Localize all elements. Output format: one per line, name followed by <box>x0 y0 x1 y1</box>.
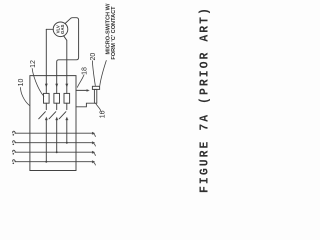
branch 3 connector arrow (down) <box>66 84 68 87</box>
branch 3 wire below box <box>66 103 68 109</box>
bus 2 left break squiggle <box>13 141 16 143</box>
micro-switch NC contact wire 18 <box>76 89 86 91</box>
gas valve label text <box>56 24 65 34</box>
switch blade S1 <box>39 112 46 119</box>
micro-switch body <box>94 89 96 103</box>
heater element box R2 <box>54 93 60 103</box>
bus 4 line <box>15 161 92 163</box>
leader line for label 16 <box>96 104 101 112</box>
bus 3 line <box>15 151 92 153</box>
branch 1 wire below box <box>45 103 47 109</box>
bus 3 left break squiggle <box>13 150 16 152</box>
bus 2 right break squiggle <box>94 143 95 146</box>
bus 4 left break squiggle <box>13 160 16 162</box>
branch 1 connector arrow (down) <box>45 84 47 87</box>
leader line for label 18 <box>77 75 84 87</box>
wire: vertical drop x=46.3 to box top <box>45 29 47 75</box>
bus 2 line <box>15 142 92 144</box>
svg-text:FIGURE 7A (PRIOR ART): FIGURE 7A (PRIOR ART) <box>199 6 212 193</box>
branch 2 lower wire to bus 3 <box>56 119 58 152</box>
branch 2 connector arrow (down) <box>56 84 58 87</box>
heater element box R1 <box>44 93 50 103</box>
branch 1 connector arrow (up) <box>45 117 47 120</box>
switch blade S2 <box>49 112 56 119</box>
bus 4 right break squiggle <box>94 162 95 165</box>
leader line for label 20 <box>92 61 95 86</box>
junction dot branch3/bus2 <box>66 142 68 144</box>
branch 2 upper wire <box>56 76 58 94</box>
bus 1 right break squiggle <box>94 134 95 137</box>
thermostat housing box 10 <box>30 76 76 171</box>
branch 3 upper wire <box>66 76 68 94</box>
switch blade S3 <box>59 112 66 119</box>
wire: valve bottom lead <box>64 36 67 76</box>
heater element box R3 <box>64 93 70 103</box>
svg-text:20: 20 <box>90 53 97 61</box>
micro-switch NO contact wire 16 <box>76 103 94 107</box>
svg-text:18: 18 <box>82 67 89 75</box>
leader line for label 10 <box>21 88 30 106</box>
bus 3 right arrow <box>92 151 95 153</box>
branch 2 wire below box <box>56 103 58 109</box>
svg-text:FORM 'C' CONTACT: FORM 'C' CONTACT <box>111 6 117 60</box>
svg-text:10: 10 <box>18 79 25 87</box>
branch 1 lower wire to bus 4 <box>45 119 47 162</box>
junction dot branch2/bus3 <box>56 151 58 153</box>
bus 3 right break squiggle <box>94 153 95 156</box>
junction dot branch1/bus4 <box>45 161 47 163</box>
micro-switch bar (actuator) <box>92 86 99 89</box>
svg-text:VLV: VLV <box>56 25 61 33</box>
svg-text:16: 16 <box>99 110 106 118</box>
svg-text:12: 12 <box>30 60 37 68</box>
bus 4 right arrow <box>92 161 95 163</box>
leader line for label 12 <box>32 69 44 97</box>
bus 1 line <box>15 132 92 134</box>
micro-switch note text <box>105 3 117 60</box>
branch 3 connector arrow (up) <box>66 117 68 120</box>
bus 1 left break squiggle <box>13 131 16 133</box>
bus 2 right arrow <box>92 142 95 144</box>
wire: valve top lead loop <box>57 18 79 76</box>
branch 1 upper wire <box>45 76 47 94</box>
leader line for micro-switch note <box>100 61 107 86</box>
micro-switch contact arrow <box>87 89 90 91</box>
wire: valve left lead to node A <box>46 28 53 30</box>
gas valve GV <box>53 22 68 37</box>
branch 2 connector arrow (up) <box>56 117 58 120</box>
branch 3 lower wire to bus 2 <box>66 119 68 143</box>
bus 1 right arrow <box>92 132 95 134</box>
